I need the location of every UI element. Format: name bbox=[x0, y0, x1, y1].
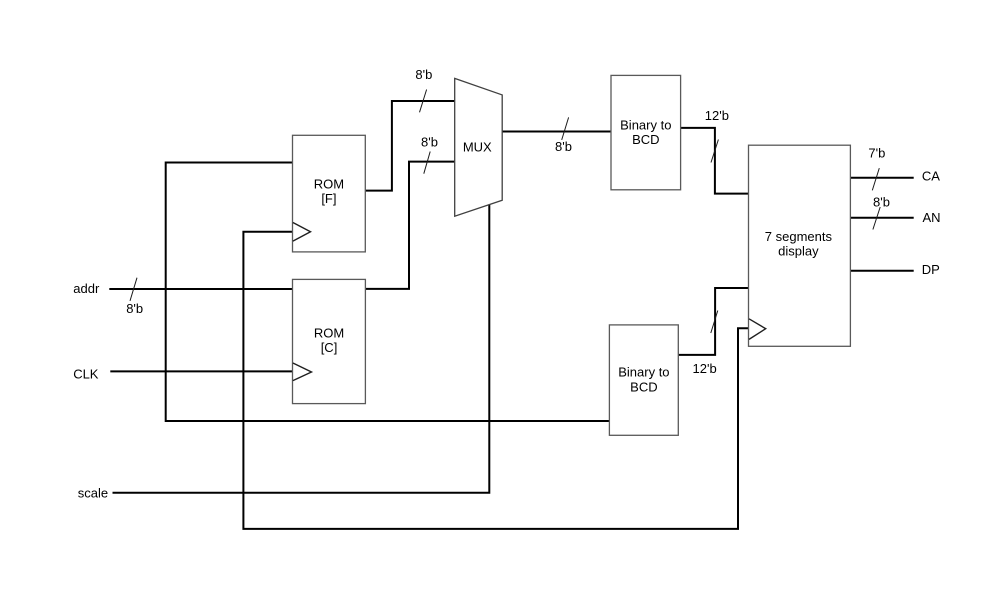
svg-text:8'b: 8'b bbox=[555, 139, 572, 154]
svg-text:DP: DP bbox=[922, 262, 940, 277]
wire scale to MUX select bbox=[113, 205, 490, 493]
svg-text:addr: addr bbox=[73, 281, 100, 296]
svg-text:8'b: 8'b bbox=[873, 195, 890, 210]
bus slash CA 7'b bbox=[872, 168, 879, 190]
svg-text:scale: scale bbox=[78, 485, 108, 500]
bus slash MUX in0 8'b bbox=[420, 90, 427, 113]
svg-text:MUX: MUX bbox=[463, 139, 492, 154]
Binary to BCD block 2 bbox=[609, 325, 678, 435]
wire addr trunk to ROM F input and Binary-to-BCD2 input bbox=[166, 163, 610, 422]
svg-text:BCD: BCD bbox=[630, 379, 657, 394]
ROM C clk triangle bbox=[293, 363, 312, 381]
7seg clk triangle bbox=[749, 319, 766, 340]
ROM [F] block bbox=[293, 135, 366, 252]
svg-text:ROM: ROM bbox=[314, 326, 344, 341]
svg-text:ROM: ROM bbox=[314, 176, 344, 191]
svg-text:CA: CA bbox=[922, 169, 940, 184]
svg-text:[C]: [C] bbox=[321, 340, 338, 355]
Binary to BCD block 1 bbox=[611, 75, 681, 189]
wire MUX output to Binary-to-BCD1 bbox=[502, 131, 611, 133]
svg-text:12'b: 12'b bbox=[693, 361, 717, 376]
wire CA output bbox=[850, 177, 913, 179]
wire DP output bbox=[850, 270, 913, 272]
MUX trapezoid U1 bbox=[455, 78, 503, 216]
svg-text:8'b: 8'b bbox=[421, 134, 438, 149]
svg-text:8'b: 8'b bbox=[415, 67, 432, 82]
bus slash AN 8'b bbox=[873, 207, 880, 230]
svg-text:BCD: BCD bbox=[632, 132, 659, 147]
svg-text:Binary to: Binary to bbox=[620, 117, 671, 132]
wire AN output bbox=[850, 217, 913, 219]
bus slash BCD1 out 12'b bbox=[711, 140, 718, 163]
wire ROM C output to MUX in1 bbox=[365, 162, 454, 289]
bus slash addr 8'b bbox=[130, 278, 137, 301]
wire Binary-to-BCD1 output to 7-segment in0 bbox=[681, 128, 749, 194]
bus slash MUX out 8'b bbox=[562, 117, 569, 139]
bus slash BCD2 out 12'b bbox=[711, 311, 718, 334]
7 segments display block bbox=[749, 145, 851, 346]
svg-text:AN: AN bbox=[923, 210, 941, 225]
svg-text:Binary to: Binary to bbox=[618, 365, 669, 380]
svg-text:7 segments: 7 segments bbox=[765, 229, 833, 244]
svg-text:12'b: 12'b bbox=[705, 108, 729, 123]
ROM F clk triangle bbox=[293, 223, 311, 242]
wire ROM F output to MUX in0 bbox=[365, 101, 454, 191]
wire CLK input bbox=[110, 370, 292, 372]
wire CLK trunk to ROM F clk and 7-segment clk bbox=[243, 232, 748, 529]
wire addr input bbox=[109, 288, 292, 290]
svg-text:CLK: CLK bbox=[73, 367, 99, 382]
svg-text:display: display bbox=[778, 244, 819, 259]
svg-text:7'b: 7'b bbox=[868, 145, 885, 160]
svg-text:[F]: [F] bbox=[321, 191, 336, 206]
ROM [C] block bbox=[293, 279, 366, 403]
bus slash MUX in1 8'b bbox=[424, 152, 430, 174]
svg-text:8'b: 8'b bbox=[126, 301, 143, 316]
wire Binary-to-BCD2 output to 7-segment in1 bbox=[678, 288, 748, 355]
